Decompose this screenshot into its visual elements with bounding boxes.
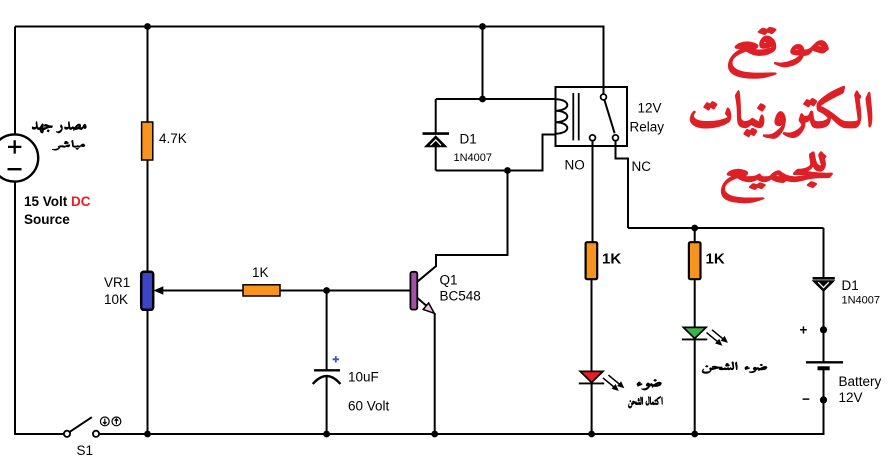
wire capacitor branch upper (326, 291, 328, 371)
relay core lines (573, 93, 578, 140)
node base wire junction (323, 287, 330, 294)
switch S1 left contact circle (64, 431, 70, 437)
wire Q1 collector (417, 171, 507, 282)
node battery plus junction (820, 326, 827, 333)
wire relay top pin (603, 26, 605, 95)
switch S1 toggle up icon (112, 417, 121, 426)
LED red crossbar (579, 382, 604, 384)
svg-text:12V: 12V (638, 101, 662, 116)
wire diode loop feed (482, 27, 484, 100)
node NC wire junction (691, 225, 698, 232)
wire diode loop left upper (435, 99, 437, 134)
label Arabic daw alshahn (702, 362, 767, 374)
LED green light arrows (707, 330, 728, 346)
wire red LED to bottom rail (591, 384, 593, 435)
svg-text:12V: 12V (839, 390, 863, 405)
switch S1 lever (70, 417, 92, 432)
wire left rail lower (14, 182, 16, 436)
potentiometer VR1 (141, 272, 153, 310)
resistor R2 1K horizontal (243, 285, 280, 296)
node bottom rail junction green LED (691, 431, 698, 438)
relay common pole circle (601, 94, 607, 100)
node bottom rail junction cap (323, 431, 330, 438)
wire capacitor branch lower (326, 377, 328, 434)
node top rail junction A (144, 23, 151, 30)
wire 4.7K branch top (147, 27, 149, 123)
svg-text:NO: NO (565, 158, 585, 173)
svg-text:10uF: 10uF (348, 370, 379, 385)
svg-text:NC: NC (632, 159, 652, 174)
svg-text:+: + (800, 323, 808, 338)
capacitor C1 curved plate (313, 376, 341, 384)
diode D1 battery bar (813, 277, 835, 280)
wire green LED to bottom rail (694, 340, 696, 435)
battery B1 short plate (818, 366, 830, 370)
wire VR1 to bottom rail (147, 310, 149, 435)
LED green charging triangle (683, 327, 706, 338)
wire NO 1K to red LED (591, 279, 593, 371)
transistor Q1 bar (410, 272, 417, 310)
diode D1 flyback triangle (424, 135, 448, 147)
resistor R3 1K NO branch (586, 242, 598, 279)
heading Arabic mawqi3 (729, 28, 829, 79)
wire NC horizontal to battery branch (628, 227, 824, 229)
label Arabic iktimal alshahn (628, 396, 662, 408)
diode D1 flyback bar (423, 132, 450, 135)
switch S1 right contact circle (93, 431, 99, 437)
capacitor plus sign (333, 356, 339, 362)
diode D1 battery white notch (818, 282, 829, 287)
wire diode to battery (823, 291, 825, 361)
DC source V1 circle (0, 134, 38, 181)
wire diode loop top (436, 98, 556, 100)
wire NO pin (592, 141, 594, 243)
svg-text:S1: S1 (77, 443, 94, 458)
svg-text:VR1: VR1 (104, 275, 130, 290)
svg-text:4.7K: 4.7K (159, 131, 187, 146)
wire 1K to Q1 base (280, 290, 411, 292)
svg-text:Relay: Relay (630, 120, 665, 135)
node bottom rail junction emitter (431, 431, 438, 438)
wire left rail upper (14, 27, 16, 135)
DC source minus sign (8, 168, 22, 170)
svg-text:10K: 10K (104, 292, 128, 307)
svg-text:1K: 1K (706, 251, 725, 268)
svg-text:1N4007: 1N4007 (454, 152, 493, 164)
heading Arabic electroniyat (690, 86, 871, 138)
heading Arabic liljamee3 (721, 152, 832, 203)
wire top rail (15, 26, 604, 28)
resistor R4 1K NC branch (689, 242, 701, 279)
transistor Q1 emitter arrowhead (423, 303, 434, 313)
LED green crossbar (682, 338, 707, 340)
label Arabic masdar jahd (32, 121, 86, 133)
wire bottom rail main (99, 433, 825, 435)
relay K1 box (556, 87, 628, 146)
svg-text:1K: 1K (252, 265, 269, 280)
wire Q1 emitter (417, 298, 433, 312)
node battery minus junction (820, 396, 827, 403)
node bottom rail junction VR1 (144, 431, 151, 438)
svg-text:Source: Source (24, 212, 70, 227)
svg-text:BC548: BC548 (440, 289, 481, 304)
capacitor C1 top plate (314, 369, 340, 371)
label Arabic daw (637, 379, 662, 390)
svg-text:60 Volt: 60 Volt (348, 399, 390, 414)
wire NC 1K branch (694, 228, 696, 242)
node diode loop top junction (479, 96, 486, 103)
wire battery branch top (823, 228, 825, 278)
LED red charge-complete triangle (580, 371, 603, 382)
svg-text:1N4007: 1N4007 (842, 295, 881, 307)
wire battery to bottom rail (823, 369, 825, 436)
diode D1 battery triangle (812, 280, 836, 292)
relay NO contact circle (590, 135, 596, 141)
wire VR1 wiper to 1K (160, 290, 243, 292)
potentiometer wiper arrow (154, 286, 164, 295)
resistor R1 4.7K (142, 122, 153, 160)
svg-text:−: − (802, 392, 810, 407)
wire 4.7K to VR1 (147, 160, 149, 272)
node top rail junction B (479, 23, 486, 30)
wire bottom rail left of switch (15, 433, 64, 435)
svg-text:Q1: Q1 (440, 273, 458, 288)
wire emitter to bottom rail (434, 313, 436, 434)
svg-text:Battery: Battery (839, 374, 882, 389)
svg-text:1K: 1K (602, 251, 621, 268)
wire NC pin step (616, 141, 629, 229)
LED red light arrows (603, 375, 624, 391)
node bottom rail junction red LED (588, 431, 595, 438)
DC source plus sign (8, 140, 21, 153)
label Arabic mubashir (52, 140, 85, 150)
diode D1 flyback white notch (430, 140, 441, 145)
wire diode loop bottom (436, 135, 556, 171)
relay lever (604, 100, 614, 134)
relay coil arcs (556, 99, 568, 134)
relay NC contact circle (613, 135, 619, 141)
wire NC 1K to green LED (694, 279, 696, 327)
battery B1 long plate (806, 361, 843, 363)
node diode loop bottom junction (504, 167, 511, 174)
svg-text:15 Volt DC: 15 Volt DC (24, 194, 91, 209)
wire diode loop left lower (435, 147, 437, 171)
svg-text:D1: D1 (842, 278, 859, 293)
switch S1 toggle down icon (100, 417, 109, 426)
svg-text:D1: D1 (460, 132, 477, 147)
